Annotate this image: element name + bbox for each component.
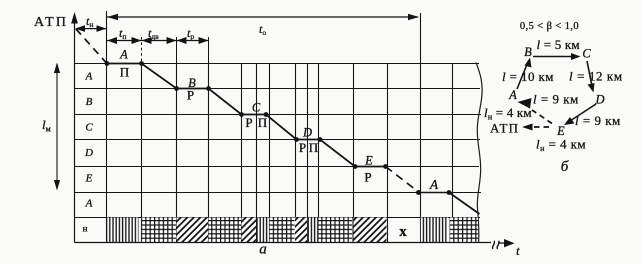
t_н double arrow: [75, 25, 107, 32]
svg-text:х: х: [399, 224, 407, 240]
hatch cell drive D-E (cross): [319, 218, 353, 243]
dashed edge E-A: [518, 98, 553, 124]
svg-text:D: D: [302, 126, 312, 140]
axis vertical АТП line with up arrow: [71, 12, 78, 243]
vertical line x=106.5 above grid: [106, 11, 108, 64]
svg-text:А: А: [429, 177, 439, 192]
grid horizontal lines: [75, 64, 482, 218]
svg-text:А: А: [85, 197, 93, 209]
dot at А2 arrival and dwell segment: [416, 190, 421, 195]
step dots: [105, 61, 452, 195]
svg-text:В: В: [86, 96, 93, 108]
svg-text:А: А: [85, 70, 93, 82]
svg-text:б: б: [561, 159, 569, 175]
svg-text:С: С: [582, 47, 591, 61]
svg-text:Р: Р: [299, 140, 306, 155]
svg-text:Р: Р: [187, 88, 194, 103]
svg-text:Р: Р: [364, 169, 371, 184]
svg-text:l = 9 км: l = 9 км: [533, 92, 579, 107]
svg-text:н: н: [83, 224, 88, 234]
svg-text:АТП: АТП: [34, 15, 68, 30]
svg-text:Р: Р: [245, 115, 252, 130]
svg-text:П: П: [120, 65, 129, 80]
svg-text:А: А: [119, 47, 128, 61]
hatch cell drive (cross): [450, 218, 479, 243]
svg-text:l = 5 км: l = 5 км: [537, 37, 580, 52]
row labels: [84, 70, 93, 209]
svg-text:АТП: АТП: [490, 121, 519, 136]
t_п double arrow: [107, 37, 142, 44]
edge D-E: [564, 104, 596, 125]
t_р double arrow: [177, 37, 209, 44]
t_дв double arrow: [142, 37, 177, 44]
bottom time axis: [75, 239, 515, 249]
svg-text:l = 9 км: l = 9 км: [575, 113, 621, 128]
svg-text:D: D: [84, 147, 93, 159]
hatch cell П at C (vertical): [257, 218, 269, 243]
vertical line x=420 above grid: [420, 13, 422, 64]
final solid leg: [449, 193, 480, 215]
wavy right edge of grid: [476, 63, 482, 243]
dashed edge E-АТП: [522, 124, 549, 131]
short verticals under arrow row: [142, 37, 209, 63]
hatch cell drive A-B (cross): [142, 218, 177, 243]
svg-text:П: П: [258, 115, 267, 130]
svg-text:а: а: [259, 242, 267, 258]
svg-text:0,5 < β < 1,0: 0,5 < β < 1,0: [520, 21, 579, 32]
svg-text:t: t: [516, 243, 520, 258]
svg-text:Е: Е: [85, 172, 93, 184]
hatch cell П at D (vertical): [308, 218, 319, 243]
hatch cell Р at B (diagonal): [177, 218, 209, 243]
l_м double arrow: [54, 63, 60, 191]
svg-text:С: С: [85, 121, 93, 133]
svg-text:А: А: [508, 88, 517, 102]
svg-text:Е: Е: [364, 154, 373, 168]
svg-text:l = 10 км: l = 10 км: [502, 69, 554, 84]
t_о double arrow: [107, 14, 419, 20]
svg-text:l = 12 км: l = 12 км: [569, 69, 623, 84]
svg-text:С: С: [252, 101, 261, 115]
grid vertical lines: [107, 63, 453, 243]
hatch cell drive B-C (cross): [209, 218, 242, 243]
edge B-C: [533, 53, 581, 60]
hatch cell П at A (vertical): [107, 218, 139, 243]
edge A-B: [517, 58, 532, 90]
dashed deadhead АТП-А: [76, 29, 106, 63]
step dashed Е-А: [386, 167, 417, 191]
hatch cell П at A2 (vertical): [420, 218, 448, 243]
hatch cell Р at D (diagonal): [295, 218, 307, 243]
hatch cell Р at E (diagonal): [354, 218, 387, 243]
svg-text:В: В: [524, 45, 532, 59]
hatch cell Р at C (diagonal): [242, 218, 257, 243]
hatch cell drive C-D (cross): [269, 218, 295, 243]
svg-text:П: П: [309, 140, 318, 155]
step line solid: [107, 64, 386, 167]
edge C-D: [587, 61, 595, 93]
